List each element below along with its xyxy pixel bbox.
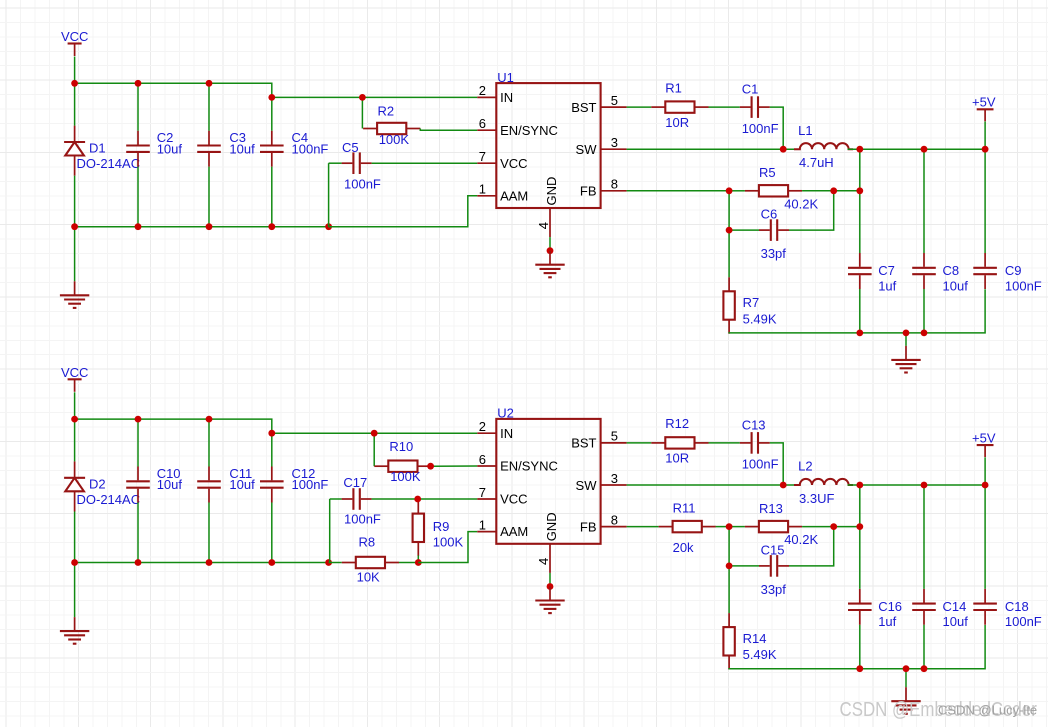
wire GND rail: [75, 562, 329, 564]
junction: [830, 523, 837, 530]
wire: [74, 512, 76, 563]
svg-text:10R: 10R: [665, 451, 689, 466]
wire: [729, 565, 759, 567]
pin 4 (GND): [549, 208, 551, 237]
svg-text:R12: R12: [665, 416, 689, 431]
svg-text:EN/SYNC: EN/SYNC: [500, 123, 558, 138]
wire: [905, 333, 907, 346]
junction: [135, 223, 142, 230]
svg-text:FB: FB: [580, 184, 597, 199]
wire: [271, 503, 273, 563]
wire: [905, 669, 907, 688]
svg-text:C1: C1: [742, 82, 759, 97]
resistor R7 (5.49K): [723, 277, 734, 333]
junction: [325, 559, 332, 566]
pin 4 (GND): [549, 544, 551, 573]
wire: [923, 485, 925, 589]
junction: [903, 665, 910, 672]
ground: [891, 346, 920, 373]
svg-text:1uf: 1uf: [878, 614, 896, 629]
svg-text:R1: R1: [665, 80, 682, 95]
wire GND rail: [729, 289, 985, 333]
pin 3 (SW): [601, 484, 627, 486]
wire: [549, 573, 551, 587]
svg-text:100K: 100K: [379, 132, 410, 147]
wire: [329, 162, 342, 164]
wire VCC top rail: [75, 83, 272, 97]
svg-text:5.49K: 5.49K: [743, 311, 777, 326]
wire: [709, 442, 740, 444]
pin 7 (VCC): [477, 162, 496, 164]
capacitor C3: [197, 131, 221, 167]
junction: [982, 482, 989, 489]
junction: [71, 559, 78, 566]
wire: [789, 191, 834, 230]
svg-text:5: 5: [611, 93, 618, 108]
svg-text:4: 4: [536, 558, 551, 565]
inductor L1: [794, 143, 853, 149]
wire FB net: [627, 190, 730, 192]
pin 1 (AAM): [477, 195, 496, 197]
ground: [891, 687, 920, 714]
svg-text:10K: 10K: [357, 570, 380, 585]
svg-text:FB: FB: [580, 519, 597, 534]
svg-text:33pf: 33pf: [761, 246, 787, 261]
capacitor C11: [197, 467, 221, 503]
pin 5 (BST): [601, 106, 627, 108]
junction: [206, 559, 213, 566]
svg-text:C8: C8: [943, 263, 960, 278]
ground: [60, 617, 89, 644]
junction pin4: [547, 247, 554, 254]
wire: [137, 167, 139, 227]
junction: [921, 482, 928, 489]
svg-text:100nF: 100nF: [742, 121, 779, 136]
svg-text:1: 1: [479, 517, 486, 532]
junction: [921, 146, 928, 153]
pin 3 (SW): [601, 148, 627, 150]
capacitor C18: [973, 589, 997, 625]
svg-text:L2: L2: [798, 459, 812, 474]
svg-text:6: 6: [479, 452, 486, 467]
capacitor C13 (100nF): [740, 432, 770, 454]
junction: [415, 559, 422, 566]
pin 2 (IN): [477, 432, 496, 434]
svg-text:4: 4: [536, 222, 551, 229]
svg-text:D1: D1: [89, 141, 106, 156]
resistor R9 (100K) vertical: [413, 500, 424, 556]
svg-text:C13: C13: [742, 417, 766, 432]
wire: [137, 503, 139, 563]
junction: [135, 416, 142, 423]
wire: [802, 190, 860, 192]
svg-text:8: 8: [611, 512, 618, 527]
power symbol VCC bar: [68, 44, 82, 57]
resistor R11 (20k): [659, 521, 716, 532]
wire: [802, 526, 860, 528]
capacitor C1 (100nF): [740, 96, 770, 118]
junction: [71, 416, 78, 423]
svg-text:R11: R11: [673, 500, 696, 515]
junction: [206, 223, 213, 230]
ground: [535, 251, 564, 278]
wire: [627, 442, 652, 444]
wire: [208, 503, 210, 563]
svg-text:L1: L1: [798, 123, 812, 138]
wire GND rail: [75, 226, 329, 228]
svg-text:10uf: 10uf: [157, 477, 183, 492]
capacitor C12: [260, 467, 284, 503]
wire: [330, 498, 342, 500]
junction: [325, 223, 332, 230]
wire: [923, 149, 925, 253]
svg-text:EN/SYNC: EN/SYNC: [500, 459, 558, 474]
wire: [137, 83, 139, 130]
junction: [726, 227, 733, 234]
pin 6 (EN/SYNC): [477, 129, 496, 131]
junction: [830, 187, 837, 194]
svg-text:SW: SW: [576, 142, 598, 157]
wire: [984, 149, 986, 253]
wire: [729, 229, 759, 231]
svg-text:VCC: VCC: [500, 492, 527, 507]
junction: [726, 563, 733, 570]
svg-text:DO-214AC: DO-214AC: [77, 492, 141, 507]
wire: [208, 83, 210, 130]
pin 6 (EN/SYNC): [477, 465, 496, 467]
wire: [137, 419, 139, 466]
junction: [268, 559, 275, 566]
svg-text:SW: SW: [576, 478, 598, 493]
junction: [414, 496, 421, 503]
svg-text:4.7uH: 4.7uH: [799, 155, 834, 170]
svg-text:U2: U2: [497, 406, 514, 421]
wire: [627, 526, 659, 528]
capacitor C5 (100nF): [342, 152, 372, 174]
op-amp/regulator IC U2: [496, 419, 600, 544]
capacitor C9: [973, 253, 997, 289]
svg-text:+5V: +5V: [972, 430, 996, 445]
wire AAM to R8 node: [418, 532, 477, 563]
svg-text:CSDN @Lucy-lte: CSDN @Lucy-lte: [938, 703, 1037, 718]
svg-text:C7: C7: [878, 263, 895, 278]
svg-text:10uf: 10uf: [229, 477, 255, 492]
svg-text:VCC: VCC: [61, 29, 88, 44]
svg-text:2: 2: [479, 419, 486, 434]
svg-text:R14: R14: [743, 631, 767, 646]
wire: [74, 392, 76, 419]
svg-text:IN: IN: [500, 90, 513, 105]
svg-text:10uf: 10uf: [157, 141, 183, 156]
wire: [420, 129, 477, 131]
wire: [923, 289, 925, 333]
wire: [208, 167, 210, 227]
svg-text:7: 7: [479, 485, 486, 500]
wire VCC pin net: [372, 162, 478, 164]
wire: [432, 465, 478, 467]
wire: [984, 122, 986, 150]
svg-text:10R: 10R: [665, 115, 689, 130]
power symbol +5V bar: [977, 109, 994, 121]
diode D1 (DO-214AC): [64, 126, 85, 176]
junction: [206, 416, 213, 423]
svg-text:R13: R13: [759, 501, 783, 516]
junction: [856, 146, 863, 153]
svg-text:6: 6: [479, 116, 486, 131]
junction: [903, 330, 910, 337]
svg-text:GND: GND: [544, 512, 559, 541]
svg-text:3: 3: [611, 471, 618, 486]
wire: [728, 527, 730, 566]
wire: [74, 176, 76, 227]
capacitor C10: [126, 467, 150, 503]
wire: [417, 556, 419, 563]
diode D2 (DO-214AC): [64, 461, 85, 511]
svg-text:VCC: VCC: [61, 365, 88, 380]
inductor L2: [794, 479, 853, 485]
junction: [268, 430, 275, 437]
wire IN net: [272, 96, 478, 98]
junction: [856, 523, 863, 530]
pin 8 (FB): [601, 526, 627, 528]
svg-text:VCC: VCC: [500, 156, 527, 171]
wire: [859, 485, 861, 589]
svg-text:R8: R8: [359, 535, 376, 550]
wire VCC top rail: [75, 419, 272, 433]
svg-text:+5V: +5V: [972, 95, 996, 110]
ground: [60, 281, 89, 308]
svg-text:5.49K: 5.49K: [743, 647, 777, 662]
svg-text:5: 5: [611, 429, 618, 444]
svg-text:C14: C14: [943, 599, 967, 614]
svg-text:C17: C17: [343, 475, 367, 490]
svg-text:R5: R5: [759, 165, 776, 180]
wire: [329, 562, 342, 564]
junction: [427, 463, 434, 470]
svg-text:100nF: 100nF: [292, 477, 329, 492]
wire: [74, 227, 76, 282]
wire AAM to GND rail: [329, 196, 478, 227]
capacitor C17 (100nF): [342, 488, 372, 510]
wire: [74, 563, 76, 618]
svg-text:10uf: 10uf: [943, 278, 969, 293]
svg-text:100nF: 100nF: [1005, 614, 1042, 629]
wire: [74, 419, 76, 461]
junction: [135, 559, 142, 566]
wire VCC pin net: [372, 498, 478, 500]
resistor R12 (10R): [651, 437, 708, 448]
wire: [399, 562, 418, 564]
junction: [921, 330, 928, 337]
pin 5 (BST): [601, 442, 627, 444]
svg-text:100nF: 100nF: [344, 512, 381, 527]
wire SW net: [627, 484, 795, 486]
svg-text:R10: R10: [389, 439, 413, 454]
wire +5V rail: [848, 484, 986, 486]
capacitor C6 (33pf): [759, 219, 789, 241]
svg-text:R7: R7: [743, 295, 760, 310]
wire: [923, 625, 925, 669]
wire: [627, 106, 652, 108]
junction: [726, 523, 733, 530]
capacitor C7: [848, 253, 872, 289]
svg-text:R9: R9: [433, 519, 450, 534]
wire: [984, 457, 986, 485]
wire: [74, 57, 76, 84]
wire: [271, 433, 273, 466]
wire IN net: [272, 432, 478, 434]
svg-text:DO-214AC: DO-214AC: [77, 156, 141, 171]
wire: [417, 498, 419, 501]
wire: [271, 97, 273, 130]
svg-text:100nF: 100nF: [742, 457, 779, 472]
junction: [921, 665, 928, 672]
wire: [770, 107, 783, 149]
capacitor C8: [912, 253, 936, 289]
wire: [271, 167, 273, 227]
resistor R13 (40.2K): [745, 521, 802, 532]
svg-text:D2: D2: [89, 476, 106, 491]
svg-text:BST: BST: [571, 436, 596, 451]
wire: [770, 443, 783, 485]
svg-text:7: 7: [479, 149, 486, 164]
svg-text:U1: U1: [497, 70, 514, 85]
svg-text:100K: 100K: [390, 469, 421, 484]
svg-text:100nF: 100nF: [344, 177, 381, 192]
capacitor C4: [260, 131, 284, 167]
svg-text:C6: C6: [761, 207, 778, 222]
svg-text:C5: C5: [342, 140, 359, 155]
resistor R1 (10R): [651, 101, 708, 112]
svg-text:10uf: 10uf: [943, 614, 969, 629]
junction: [371, 430, 378, 437]
pin 7 (VCC): [477, 498, 496, 500]
junction: [780, 482, 787, 489]
junction: [856, 330, 863, 337]
resistor R14 (5.49K): [723, 613, 734, 669]
svg-text:20k: 20k: [673, 540, 694, 555]
wire: [859, 149, 861, 253]
svg-text:C15: C15: [761, 542, 785, 557]
svg-text:1uf: 1uf: [878, 278, 896, 293]
resistor R2 (100K): [363, 123, 420, 134]
junction: [206, 80, 213, 87]
power symbol VCC bar: [68, 379, 82, 392]
svg-text:3: 3: [611, 135, 618, 150]
wire: [859, 625, 861, 669]
wire: [716, 526, 730, 528]
junction: [726, 187, 733, 194]
capacitor C2: [126, 131, 150, 167]
pin 8 (FB): [601, 190, 627, 192]
junction: [268, 223, 275, 230]
svg-text:2: 2: [479, 83, 486, 98]
svg-text:BST: BST: [571, 100, 596, 115]
pin 1 (AAM): [477, 531, 496, 533]
resistor R8 (10K): [342, 557, 399, 568]
svg-text:33pf: 33pf: [761, 582, 787, 597]
svg-text:AAM: AAM: [500, 188, 528, 203]
svg-text:40.2K: 40.2K: [784, 532, 818, 547]
junction: [982, 146, 989, 153]
svg-text:100K: 100K: [433, 535, 464, 550]
svg-text:8: 8: [611, 177, 618, 192]
wire: [328, 163, 330, 227]
capacitor C15 (33pf): [759, 555, 789, 577]
junction: [268, 94, 275, 101]
resistor R10 (100K): [374, 461, 431, 472]
pin 2 (IN): [477, 96, 496, 98]
capacitor C16: [848, 589, 872, 625]
wire: [329, 499, 331, 563]
wire: [728, 566, 730, 613]
svg-text:40.2K: 40.2K: [784, 196, 818, 211]
wire: [789, 527, 834, 566]
wire GND rail: [729, 625, 985, 669]
wire: [729, 190, 745, 192]
ground: [535, 587, 564, 614]
wire: [728, 230, 730, 277]
junction: [780, 146, 787, 153]
resistor R5 (40.2K): [745, 185, 802, 196]
svg-text:3.3UF: 3.3UF: [799, 491, 834, 506]
wire: [74, 83, 76, 125]
junction: [71, 80, 78, 87]
svg-text:100nF: 100nF: [292, 141, 329, 156]
junction: [71, 223, 78, 230]
svg-text:C9: C9: [1005, 263, 1022, 278]
wire: [361, 97, 363, 128]
wire: [373, 433, 375, 466]
wire: [729, 526, 745, 528]
junction: [856, 187, 863, 194]
svg-text:AAM: AAM: [500, 524, 528, 539]
svg-text:C16: C16: [878, 599, 902, 614]
op-amp/regulator IC U1: [496, 83, 600, 208]
wire SW net: [627, 148, 795, 150]
svg-text:GND: GND: [544, 177, 559, 206]
junction: [359, 94, 366, 101]
junction: [856, 482, 863, 489]
svg-text:10uf: 10uf: [229, 141, 255, 156]
power symbol +5V bar: [977, 445, 994, 457]
junction: [135, 80, 142, 87]
junction pin4: [547, 583, 554, 590]
wire +5V rail: [848, 148, 986, 150]
wire: [984, 485, 986, 589]
capacitor C14: [912, 589, 936, 625]
svg-text:R2: R2: [378, 104, 395, 119]
wire: [859, 289, 861, 333]
svg-text:C18: C18: [1005, 599, 1029, 614]
wire: [208, 419, 210, 466]
wire: [728, 191, 730, 230]
svg-text:IN: IN: [500, 426, 513, 441]
svg-text:1: 1: [479, 182, 486, 197]
wire: [709, 106, 740, 108]
wire: [549, 237, 551, 251]
junction: [856, 665, 863, 672]
svg-text:100nF: 100nF: [1005, 278, 1042, 293]
